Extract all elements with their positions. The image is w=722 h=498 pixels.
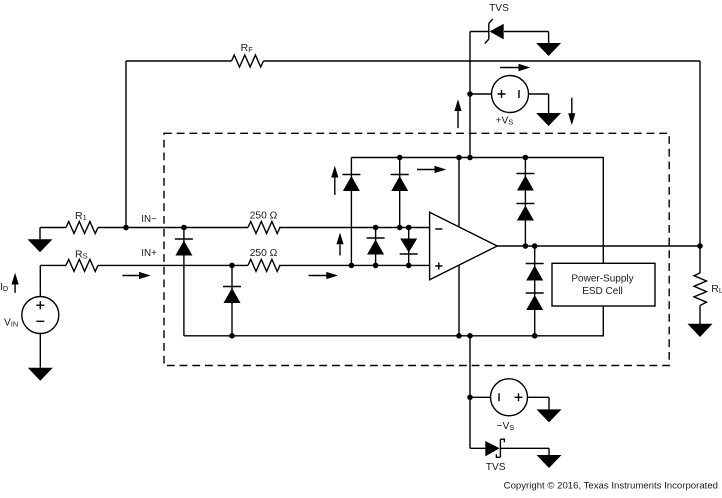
wire diode column D5 [375, 228, 377, 266]
wire bottom rail [184, 306, 603, 336]
svg-text:ESD Cell: ESD Cell [582, 286, 623, 297]
wire IN+ line [40, 265, 429, 296]
wire diode column D1 [183, 228, 185, 336]
ground -VS [537, 409, 562, 422]
wire diode column lower clamp [534, 246, 536, 336]
op-amp U1 [430, 212, 498, 280]
source +VS [492, 76, 529, 127]
wire right vertical output [699, 61, 701, 324]
diode DU2 [516, 204, 534, 221]
svg-text:Power-Supply: Power-Supply [571, 274, 633, 285]
svg-text:IN+: IN+ [141, 248, 157, 259]
wire diode column D3 [350, 158, 352, 266]
diode DL2 [526, 293, 544, 310]
source VIN [4, 297, 59, 334]
arrow down right of +VS ground [568, 98, 575, 125]
resistor RL [694, 273, 722, 306]
wire diode column upper clamp [524, 158, 526, 247]
svg-text:ID: ID [0, 282, 9, 293]
arrow up inside box top left [331, 166, 338, 195]
diode DU1 [516, 174, 534, 191]
resistor 250ohm bottom [248, 248, 280, 271]
arrow ID up [0, 273, 19, 293]
resistor RF [232, 42, 264, 67]
wire -VS branch [470, 397, 549, 409]
wire op-amp output [497, 245, 700, 247]
diode D4 [391, 175, 409, 192]
wire TVS top [470, 32, 549, 44]
diode D1 [175, 239, 193, 256]
wire feedback top [126, 60, 700, 62]
svg-text:TVS: TVS [486, 462, 506, 473]
arrow right on top rail [417, 166, 446, 173]
svg-text:250 Ω: 250 Ω [250, 248, 278, 259]
svg-text:TVS: TVS [489, 3, 509, 14]
dashed IC boundary box [164, 133, 669, 365]
svg-text:250 Ω: 250 Ω [250, 210, 278, 221]
ground RL [688, 324, 713, 337]
arrow right above +VS [500, 64, 530, 71]
ground TVS bottom [537, 455, 562, 468]
wire supply vertical through op amp [458, 158, 460, 336]
wire diode column D6 [408, 228, 410, 266]
wire IN- line [40, 228, 430, 240]
wire VIN to ground [39, 334, 41, 368]
svg-text:Copyright © 2016, Texas Instru: Copyright © 2016, Texas Instruments Inco… [504, 481, 718, 492]
wire diode column D4 [399, 158, 401, 228]
svg-text:IN−: IN− [141, 214, 157, 225]
power supply ESD cell box [552, 263, 655, 306]
ground VIN [28, 368, 53, 381]
arrow up between input diodes [336, 233, 343, 256]
resistor RS [66, 248, 98, 271]
arrow right after RS [122, 272, 150, 279]
source -VS [491, 379, 528, 432]
tvs diode top [485, 3, 509, 44]
resistor 250ohm top [248, 210, 280, 233]
node dots [123, 91, 703, 400]
diode DL1 [526, 264, 544, 281]
wire TVS bottom [470, 448, 549, 455]
diode D3 [342, 175, 360, 192]
svg-text:+VS: +VS [496, 116, 514, 127]
tvs diode bottom [485, 439, 506, 473]
wire diode column D2 [231, 265, 233, 335]
diode D5 [367, 238, 385, 255]
arrow right below IN+ inside box [309, 272, 339, 279]
arrow up left of +VS [454, 99, 461, 128]
wire +VS branch [470, 94, 549, 113]
wire top rail [351, 158, 603, 264]
wire +VS vertical [469, 32, 471, 158]
ground TVS top [536, 43, 561, 56]
wire -VS vertical [469, 336, 471, 449]
svg-text:−VS: −VS [497, 421, 515, 432]
ground +VS [536, 113, 561, 126]
ground R1 [28, 239, 53, 252]
wire feedback left vertical [125, 61, 127, 228]
resistor R1 [66, 210, 98, 234]
diode D2 [223, 287, 241, 304]
svg-text:VIN: VIN [4, 317, 18, 328]
diode D6 down [400, 239, 418, 255]
